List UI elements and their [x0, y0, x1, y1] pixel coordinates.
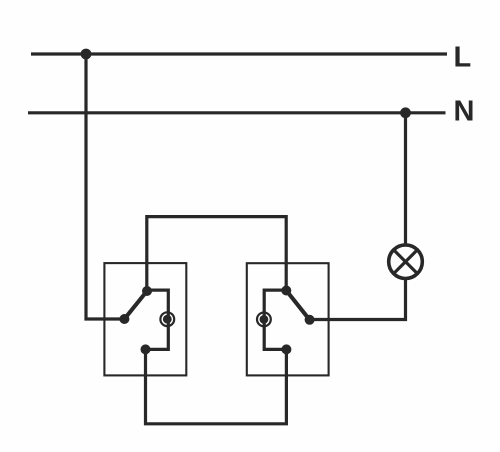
- lamp E1: [389, 245, 423, 279]
- wire L supply line: [31, 52, 447, 55]
- wire N supply line: [28, 111, 446, 114]
- wire L feed to switch S1 common: [86, 54, 124, 319]
- switch S2 internal wire to lower terminal: [264, 290, 286, 349]
- svg-text:L: L: [454, 41, 472, 73]
- switch S2 lower terminal: [281, 344, 291, 354]
- switch S2 ring terminal dot: [260, 315, 269, 324]
- switch S1 enclosure box: [104, 263, 186, 375]
- svg-text:N: N: [454, 95, 475, 127]
- wire bottom link S1 to S2: [146, 349, 287, 423]
- switch S2 upper terminal: [281, 286, 291, 296]
- switch S1 ring terminal: [160, 312, 174, 326]
- switch S2 enclosure box: [247, 263, 329, 375]
- node L junction: [81, 49, 92, 60]
- wire N feed to lamp: [404, 113, 407, 245]
- switch S1 upper terminal: [142, 286, 152, 296]
- switch S1 ring terminal dot: [163, 315, 172, 324]
- switch S1 common terminal: [119, 314, 129, 324]
- node N junction: [400, 107, 411, 118]
- switch S2 ring terminal: [257, 313, 271, 327]
- switch S1 internal wire to lower terminal: [146, 290, 169, 349]
- wire top link S1 to S2: [147, 217, 286, 291]
- wire lamp to switch S2 common: [310, 278, 406, 320]
- switch S2 common terminal: [305, 315, 315, 325]
- switch S1 lower terminal: [141, 344, 151, 354]
- switch S1 lever: [124, 291, 147, 319]
- switch S2 lever: [286, 291, 309, 320]
